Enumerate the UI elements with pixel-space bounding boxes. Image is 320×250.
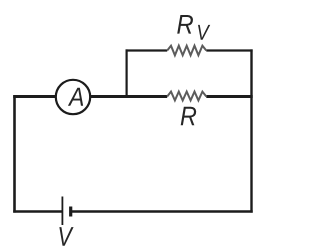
wire: top branch left segment [126,49,168,51]
wire: main horizontal middle segment (ammeter to R) [89,95,167,98]
label R_V : subscript V [198,25,210,40]
wire: right vertical [250,49,252,212]
ammeter U1 circle [56,80,90,114]
wire: left vertical [13,95,16,212]
label R [181,107,196,126]
wire: bottom right (battery to right) [72,210,253,212]
wire: branch vertical (junction to top branch) [125,49,127,96]
battery V: long plate [61,197,63,226]
battery V: short thick plate [69,207,72,217]
wire: main horizontal left segment [13,95,57,98]
resistor R (zigzag) [167,92,206,101]
wire: top branch right segment [206,49,252,51]
label R_V : R [177,15,193,34]
wire: bottom left (to battery) [13,210,62,212]
ammeter label A [68,88,83,106]
wire: main horizontal right segment (R to right wire) [206,95,252,98]
resistor R_V (zigzag) [167,46,206,56]
label V (battery) [59,227,73,246]
